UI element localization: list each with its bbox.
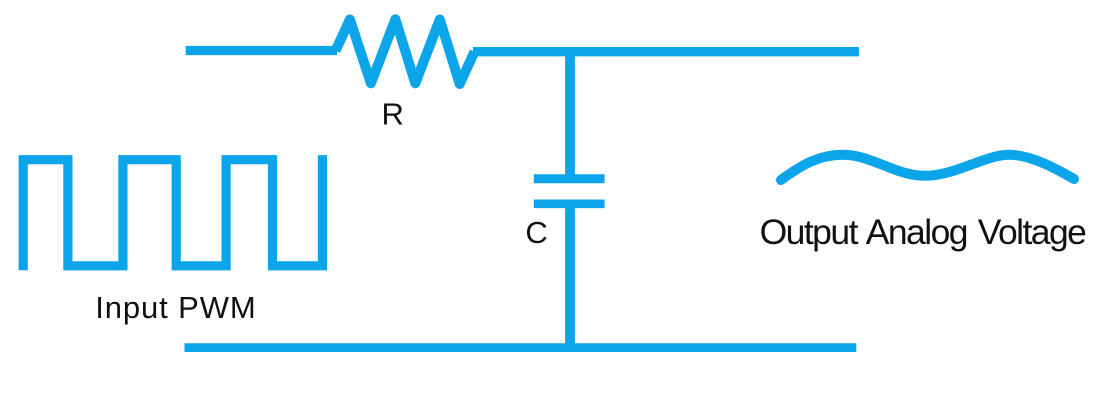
svg-text:Input PWM: Input PWM [95,290,256,325]
svg-text:R: R [382,97,404,132]
svg-text:C: C [525,215,547,250]
svg-text:Output Analog Voltage: Output Analog Voltage [760,212,1087,252]
